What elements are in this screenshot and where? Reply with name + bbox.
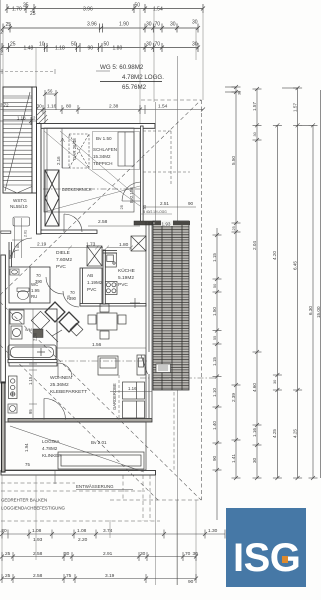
dashed horizontals right of schlafen	[143, 131, 190, 186]
loggia door arc from wohnen	[44, 398, 66, 419]
svg-text:30: 30	[146, 42, 152, 48]
svg-text:10: 10	[39, 42, 45, 48]
svg-text:25: 25	[6, 22, 12, 28]
svg-text:WM: WM	[25, 328, 32, 332]
deckenknick label	[62, 187, 92, 192]
long witness line x155 top	[154, 102, 156, 222]
svg-text:WSTG: WSTG	[13, 198, 27, 203]
svg-text:50: 50	[71, 42, 77, 48]
corridor door arc 2	[63, 291, 79, 307]
schlafen loggia door label	[129, 187, 134, 203]
entwaesserung label	[76, 484, 114, 489]
kitchen stove	[105, 282, 117, 295]
svg-text:2.51: 2.51	[160, 201, 169, 206]
deckenknick line	[43, 188, 140, 190]
svg-text:15.00: 15.00	[316, 306, 321, 318]
entry niche wall	[9, 242, 12, 267]
bottom row 1 labels	[0, 528, 218, 543]
svg-text:ENTWÄSSERUNG: ENTWÄSSERUNG	[76, 484, 114, 489]
right edge chain	[319, 90, 321, 478]
svg-text:25.36M2: 25.36M2	[50, 382, 69, 388]
bottom witness lines	[2, 475, 196, 585]
svg-text:1.08: 1.08	[32, 528, 42, 534]
svg-text:90: 90	[188, 579, 194, 585]
svg-text:TEPPICH: TEPPICH	[93, 161, 113, 166]
sum line	[100, 81, 162, 83]
left mid wall strip (bad/wc outer)	[1, 255, 6, 383]
heater dots box	[9, 376, 18, 399]
svg-text:1.70: 1.70	[12, 6, 22, 12]
svg-text:25: 25	[5, 573, 11, 579]
svg-text:SCHLAFEN: SCHLAFEN	[93, 147, 117, 152]
svg-text:KÜCHE: KÜCHE	[118, 267, 135, 274]
svg-text:1.93: 1.93	[162, 221, 171, 226]
wohnen ceiling line	[57, 360, 148, 362]
lower-left small fixtures	[8, 404, 17, 413]
svg-text:4.78M2: 4.78M2	[42, 446, 58, 451]
right chain 6	[309, 123, 318, 480]
stairwell outline	[3, 87, 32, 193]
svg-text:DECKENKNICK: DECKENKNICK	[62, 187, 92, 192]
diele label	[56, 250, 72, 270]
bad walls	[9, 309, 57, 366]
svg-text:30: 30	[140, 551, 146, 557]
tiny annotation line	[140, 213, 172, 215]
ISG logo orange dot	[282, 556, 289, 563]
svg-text:390: 390	[35, 279, 43, 284]
shaft box A	[87, 246, 102, 266]
svg-text:90: 90	[88, 45, 94, 51]
svg-text:1.56: 1.56	[92, 342, 102, 348]
svg-text:90: 90	[188, 201, 194, 206]
right chain 3	[253, 87, 262, 480]
svg-text:6.30: 6.30	[308, 306, 313, 315]
svg-text:1.54: 1.54	[153, 6, 163, 12]
svg-text:7.60M2: 7.60M2	[56, 257, 72, 263]
kueche walls	[80, 250, 146, 306]
svg-text:80: 80	[66, 104, 72, 110]
stair treads	[3, 98, 32, 185]
right wall upper	[141, 126, 144, 223]
dim labels row B	[0, 20, 198, 37]
entry threshold box	[13, 217, 30, 226]
svg-text:1.10: 1.10	[212, 388, 217, 397]
ab walls	[80, 268, 102, 306]
dim chain row A	[5, 4, 205, 13]
svg-text:2.58: 2.58	[33, 573, 43, 579]
entwaesserung underline	[55, 470, 133, 490]
rotated small dim 2.16	[56, 138, 77, 165]
ab dim	[66, 295, 71, 300]
svg-text:.20: .20	[0, 528, 7, 534]
svg-text:70: 70	[155, 22, 161, 28]
svg-text:3.96: 3.96	[83, 6, 93, 12]
svg-text:5.19M2: 5.19M2	[118, 275, 134, 281]
svg-text:80: 80	[16, 244, 20, 248]
bottom chain row 1	[0, 530, 225, 539]
svg-text:2.20: 2.20	[78, 537, 88, 543]
svg-text:1.80: 1.80	[119, 242, 129, 248]
left outer wall	[37, 124, 42, 235]
svg-text:65.76M2: 65.76M2	[122, 84, 147, 91]
dim chain row B	[1, 24, 200, 33]
garderobe text rotated	[112, 383, 117, 410]
svg-text:1.80: 1.80	[113, 45, 123, 51]
1.93 chip	[161, 221, 173, 227]
bad door arc	[58, 363, 72, 377]
svg-text:2.19: 2.19	[37, 242, 47, 248]
svg-text:2.16: 2.16	[56, 156, 61, 165]
left edge witness line	[0, 0, 2, 255]
schlafen door arc	[64, 214, 82, 232]
stair landing line	[3, 95, 32, 97]
label frame	[93, 132, 140, 170]
svg-text:38: 38	[238, 91, 242, 95]
svg-text:25: 25	[30, 11, 36, 17]
top-left dim lines	[0, 117, 36, 125]
dash-dot line y378	[140, 377, 215, 379]
svg-text:30: 30	[192, 20, 198, 26]
svg-text:Bv 2.01: Bv 2.01	[91, 440, 107, 445]
tv board	[137, 355, 145, 375]
svg-text:NL55/10: NL55/10	[10, 204, 28, 209]
loggia label	[42, 439, 62, 458]
svg-text:PVC: PVC	[56, 264, 66, 270]
balken labels	[1, 498, 66, 511]
svg-text:1.40: 1.40	[212, 421, 217, 430]
svg-text:1.50: 1.50	[212, 307, 217, 316]
loggia diagonal	[10, 426, 144, 472]
tall shaft X box	[45, 170, 59, 226]
stair direction line	[3, 92, 32, 193]
dotted sheet line	[0, 71, 55, 73]
svg-text:30: 30	[253, 132, 257, 136]
planter box	[58, 452, 144, 469]
witness lines from top chains	[3, 9, 203, 129]
dim labels row C	[0, 42, 198, 57]
svg-text:90: 90	[212, 455, 217, 461]
schlafen inner divider	[62, 128, 69, 168]
svg-text:Bv 1.50: Bv 1.50	[96, 136, 112, 141]
svg-text:30: 30	[37, 104, 43, 110]
wc label	[31, 282, 40, 299]
svg-text:95: 95	[28, 409, 33, 414]
bottom chain row 3	[0, 574, 198, 583]
couch	[98, 356, 118, 375]
bottom row 2 labels	[5, 551, 198, 557]
Bv 1.50 label	[96, 136, 112, 141]
kueche label	[118, 267, 135, 288]
kitchen sink unit	[105, 253, 116, 267]
svg-text:GEDREHTER BALKEN: GEDREHTER BALKEN	[1, 498, 47, 503]
svg-text:1.48: 1.48	[24, 45, 34, 51]
svg-text:3.19: 3.19	[105, 573, 115, 579]
svg-text:1.15: 1.15	[212, 357, 217, 366]
svg-text:1.16: 1.16	[128, 386, 137, 391]
left lower outer wall	[2, 382, 6, 472]
svg-text:B 40/2.19 LOGG: B 40/2.19 LOGG	[143, 210, 167, 214]
long witness line x177	[176, 56, 178, 585]
svg-text:1.18: 1.18	[17, 116, 26, 121]
svg-text:DIELE: DIELE	[56, 250, 70, 256]
svg-text:50: 50	[135, 3, 141, 9]
svg-text:30: 30	[64, 551, 70, 557]
svg-text:15.34M2: 15.34M2	[93, 154, 111, 159]
svg-text:2.30: 2.30	[33, 332, 38, 341]
chain 2 small label 38	[238, 91, 242, 95]
svg-text:WOHNEN: WOHNEN	[50, 375, 72, 381]
svg-text:25: 25	[232, 226, 236, 230]
ISG logo text	[233, 536, 303, 581]
dim 1.16 box	[128, 386, 137, 391]
right chain 2	[225, 85, 241, 480]
svg-text:1.19M2: 1.19M2	[87, 280, 103, 285]
dim chain row C	[0, 43, 200, 52]
svg-text:75: 75	[66, 295, 71, 300]
ISG logo	[226, 508, 307, 587]
toilet	[17, 288, 29, 300]
wall schlafen/diele	[41, 230, 97, 234]
svg-text:1.95: 1.95	[31, 288, 40, 293]
bottom outer wall loggia	[1, 471, 156, 476]
svg-text:5.50: 5.50	[231, 156, 236, 165]
svg-text:25: 25	[23, 3, 29, 9]
Bv 2.01	[91, 440, 107, 445]
svg-text:KLEBEPARKETT: KLEBEPARKETT	[50, 389, 87, 395]
svg-text:2.01: 2.01	[24, 230, 28, 237]
svg-text:75: 75	[66, 573, 72, 579]
dashed vertical x174 below hatch	[173, 392, 175, 470]
svg-text:RU: RU	[31, 294, 37, 299]
svg-text:1.90: 1.90	[119, 22, 129, 28]
dim 2.19 diele	[37, 242, 96, 248]
svg-text:1.54: 1.54	[158, 104, 168, 110]
svg-text:25: 25	[119, 204, 124, 209]
svg-text:2.58: 2.58	[98, 219, 108, 225]
svg-text:25: 25	[5, 551, 11, 557]
loggia interior	[5, 422, 146, 470]
svg-text:50: 50	[104, 42, 110, 48]
dim row y207	[143, 206, 196, 208]
svg-text:1.57: 1.57	[252, 102, 257, 111]
svg-text:LOGGIENDACHBEFESTIGUNG: LOGGIENDACHBEFESTIGUNG	[1, 506, 66, 511]
svg-text:2.72: 2.72	[0, 103, 9, 108]
svg-text:LOGGIA: LOGGIA	[42, 439, 61, 444]
rotated dim 1.94	[24, 443, 30, 467]
corridor door arc 1	[46, 277, 63, 294]
hatch top dark band	[155, 221, 191, 225]
svg-text:25: 25	[10, 42, 16, 48]
svg-text:30: 30	[146, 22, 152, 28]
WSTG label	[10, 198, 28, 209]
loggia door leaf	[141, 355, 148, 374]
svg-text:1.08: 1.08	[77, 528, 87, 534]
schlafen room interior	[44, 128, 134, 212]
stairwell right wall	[32, 87, 37, 193]
dim 56 above wall	[43, 90, 58, 123]
dining table	[88, 304, 126, 339]
wardrobe dashed box	[69, 134, 89, 168]
wm label	[25, 328, 32, 332]
wc room walls	[9, 267, 50, 303]
svg-text:70: 70	[70, 290, 75, 295]
svg-text:WG 5: 60.98M2: WG 5: 60.98M2	[100, 64, 144, 71]
svg-text:55: 55	[213, 336, 217, 340]
svg-text:GARDEROBE: GARDEROBE	[112, 383, 117, 410]
bad sink	[10, 310, 24, 324]
loggia strip verticals	[162, 221, 182, 390]
wohnen inner dim labels	[28, 332, 38, 414]
WG area text	[100, 64, 164, 91]
svg-text:70: 70	[155, 42, 161, 48]
svg-text:3.96: 3.96	[87, 22, 97, 28]
svg-text:2.38: 2.38	[109, 104, 119, 110]
svg-text:1.18: 1.18	[55, 45, 65, 51]
svg-text:1.93: 1.93	[33, 537, 43, 543]
dim row above apartment y110	[0, 105, 205, 114]
svg-text:30: 30	[273, 380, 277, 384]
shaft box B	[131, 236, 146, 251]
svg-text:4.25: 4.25	[292, 429, 297, 438]
dim row y110 labels	[37, 104, 168, 110]
dim 70/390	[35, 273, 77, 301]
svg-text:50: 50	[213, 284, 217, 288]
schlafen loggia door	[122, 182, 141, 201]
wall wohnen/loggia	[8, 419, 152, 423]
svg-text:Bv2.10B: Bv2.10B	[129, 187, 134, 203]
svg-text:1.57: 1.57	[292, 103, 297, 112]
schlafen labels	[93, 147, 117, 166]
box marks	[158, 366, 168, 370]
ab label	[87, 273, 103, 292]
small box in hatch	[156, 364, 171, 373]
svg-text:70: 70	[185, 551, 191, 557]
svg-text:2.58: 2.58	[33, 551, 43, 557]
svg-text:30: 30	[193, 551, 199, 557]
garderobe boxes	[123, 382, 145, 418]
schlafen cross diagonals	[44, 131, 140, 212]
svg-text:30: 30	[170, 22, 176, 28]
dark fixture blob	[33, 329, 43, 338]
svg-text:AB: AB	[87, 273, 93, 278]
svg-text:6.45: 6.45	[292, 261, 297, 270]
svg-text:1.16: 1.16	[252, 428, 257, 437]
entry wall stub	[1, 231, 11, 233]
svg-text:30: 30	[192, 42, 198, 48]
right chain 5	[282, 86, 314, 480]
svg-text:4.20: 4.20	[272, 251, 277, 260]
wall corner hatch	[36, 108, 48, 127]
wc door arc	[10, 250, 19, 259]
small dims near wall y207	[119, 204, 147, 209]
svg-text:4.60: 4.60	[252, 383, 257, 392]
svg-text:1.15: 1.15	[212, 253, 217, 262]
bottom chain row 2	[0, 552, 198, 561]
bad bottom wall	[8, 360, 57, 363]
entry door labels	[16, 230, 28, 248]
diagonal wardrobe group	[31, 302, 83, 342]
svg-text:PVC: PVC	[87, 287, 97, 292]
window band wall	[146, 222, 152, 418]
roof dashed rect	[110, 100, 202, 500]
dim labels row A	[12, 3, 163, 17]
bathtub	[8, 345, 56, 360]
svg-text:56: 56	[48, 89, 53, 94]
wall segment above kitchen	[134, 221, 153, 225]
dim 2.58 schlafen	[98, 219, 108, 225]
dim 1.80	[119, 242, 129, 248]
kitchen step mark	[130, 298, 140, 308]
right chain 4	[273, 123, 282, 480]
svg-text:30: 30	[252, 457, 257, 463]
bottom row 3 labels	[5, 573, 194, 585]
svg-text:1.30: 1.30	[208, 528, 218, 534]
svg-text:1.16: 1.16	[47, 104, 57, 110]
leader lines below plan	[1, 475, 160, 521]
roof dash-dot diagonal A	[0, 100, 201, 295]
roof dash-dot diagonal B	[0, 302, 201, 500]
svg-text:GAR 26/18: GAR 26/18	[72, 138, 77, 160]
entry door arc	[12, 238, 32, 258]
entry door dim lines	[12, 218, 24, 258]
svg-text:3.74: 3.74	[103, 528, 113, 534]
wohnen label	[50, 375, 87, 395]
svg-text:1.15: 1.15	[28, 376, 33, 385]
washing machine	[11, 326, 22, 339]
svg-text:1.94: 1.94	[24, 443, 29, 452]
svg-text:2.04: 2.04	[252, 241, 257, 250]
svg-text:1.41: 1.41	[231, 454, 236, 463]
svg-text:75: 75	[25, 462, 30, 467]
svg-text:4.78M2 LOGG.: 4.78M2 LOGG.	[122, 74, 164, 81]
svg-text:KLINKER: KLINKER	[42, 453, 62, 458]
svg-text:2.91: 2.91	[103, 551, 113, 557]
svg-text:4.25: 4.25	[272, 429, 277, 438]
top outer wall	[37, 124, 156, 129]
top-left dim labels	[0, 103, 36, 121]
hatched loggia floor	[153, 221, 189, 390]
wohnen inner dim line	[29, 309, 37, 420]
svg-text:2.39: 2.39	[231, 393, 236, 402]
svg-text:70: 70	[36, 273, 41, 278]
dim 1.56	[92, 342, 102, 348]
wc sink	[10, 269, 19, 275]
right chain 1	[213, 228, 222, 520]
svg-text:PVC: PVC	[118, 282, 128, 288]
